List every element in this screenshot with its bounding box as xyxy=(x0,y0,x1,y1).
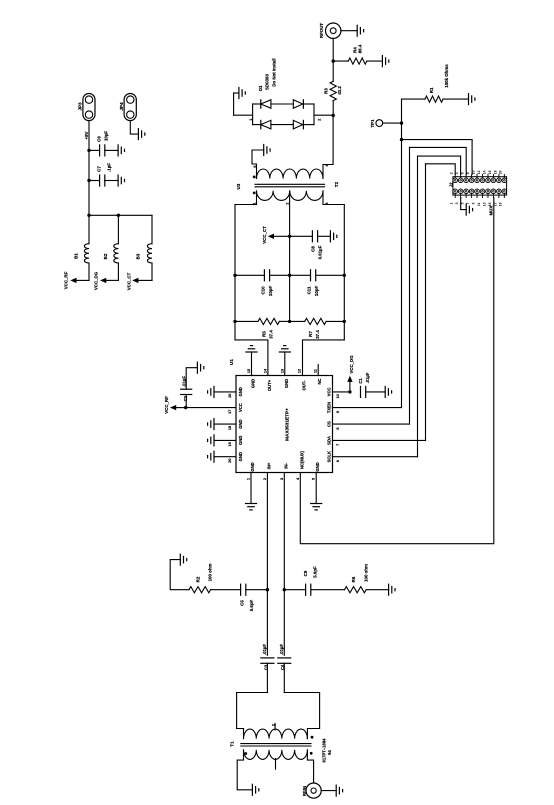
svg-text:VCC_RF: VCC_RF xyxy=(64,271,69,289)
svg-text:2: 2 xyxy=(263,478,267,480)
resistor R5 xyxy=(233,318,291,338)
diode D1a xyxy=(253,100,294,109)
svg-text:RFOUT: RFOUT xyxy=(319,23,324,38)
svg-text:6: 6 xyxy=(336,460,340,462)
svg-text:18: 18 xyxy=(493,170,497,174)
svg-text:6: 6 xyxy=(461,172,465,174)
svg-text:1: 1 xyxy=(450,202,454,204)
svg-text:R3: R3 xyxy=(324,88,329,94)
wire C4 to T1 xyxy=(284,693,319,739)
ground (R1) xyxy=(469,94,475,105)
resistor R7 xyxy=(290,318,346,338)
svg-text:17: 17 xyxy=(228,410,232,414)
svg-text:C9: C9 xyxy=(303,570,308,576)
svg-text:8: 8 xyxy=(466,172,470,174)
pin 19 GND xyxy=(214,436,243,447)
svg-text:C4: C4 xyxy=(280,664,285,670)
svg-text:20: 20 xyxy=(228,458,232,462)
svg-text:C6: C6 xyxy=(97,136,102,142)
wire TXEN riser xyxy=(400,99,403,408)
svg-text:NC(MUX): NC(MUX) xyxy=(299,450,304,469)
transformer T2 secondary xyxy=(252,116,333,179)
svg-text:B3: B3 xyxy=(136,253,141,259)
wire JP4 to ground xyxy=(130,121,138,135)
capacitor C8 xyxy=(290,231,331,260)
svg-text:VCC: VCC xyxy=(327,387,332,396)
svg-text:GND: GND xyxy=(315,462,320,471)
connector JP3 xyxy=(78,94,96,121)
pin 1 GND xyxy=(247,462,256,503)
capacitor C3 xyxy=(261,644,274,693)
inductor B2 xyxy=(103,215,118,280)
svg-text:VCC_RF: VCC_RF xyxy=(164,396,169,414)
svg-text:R7: R7 xyxy=(308,331,313,337)
svg-text:C8: C8 xyxy=(311,246,316,252)
svg-text:8: 8 xyxy=(336,427,340,429)
svg-text:IN+: IN+ xyxy=(266,462,271,469)
svg-text:10pF: 10pF xyxy=(314,286,319,297)
svg-text:JP3: JP3 xyxy=(78,102,83,111)
svg-text:100 ohm: 100 ohm xyxy=(364,564,369,582)
svg-text:16: 16 xyxy=(488,170,492,174)
svg-text:U1: U1 xyxy=(229,359,234,365)
svg-text:C3: C3 xyxy=(263,664,268,670)
svg-text:GND: GND xyxy=(284,379,289,388)
svg-text:19: 19 xyxy=(228,442,232,446)
inductor B1 xyxy=(74,215,90,280)
transformer T1 secondary xyxy=(244,724,314,739)
svg-text:VCC_DG: VCC_DG xyxy=(349,355,354,374)
wire OUT- feed xyxy=(303,340,345,376)
diode D1d xyxy=(293,120,314,129)
capacitor C7 xyxy=(89,163,118,186)
svg-text:.01µF: .01µF xyxy=(279,644,284,655)
svg-text:4: 4 xyxy=(455,172,459,174)
svg-text:10pF: 10pF xyxy=(268,286,273,297)
svg-text:100k Ohms: 100k Ohms xyxy=(444,64,449,88)
pin 3 IN- xyxy=(280,463,289,656)
inductor B3 xyxy=(136,215,153,280)
ground (C1) xyxy=(385,386,391,397)
resistor R3 xyxy=(324,61,343,115)
ground (pin16) xyxy=(208,386,214,397)
svg-text:10µF: 10µF xyxy=(104,131,109,141)
svg-text:VCC: VCC xyxy=(238,403,243,412)
svg-text:JP4: JP4 xyxy=(119,102,124,111)
node R4 junction xyxy=(332,59,335,62)
pin 14 OUT+ xyxy=(264,368,273,391)
svg-text:1: 1 xyxy=(247,478,251,480)
svg-text:SD0393: SD0393 xyxy=(265,74,270,90)
net MUX xyxy=(489,206,494,216)
test point TP1 xyxy=(370,119,383,128)
ground (R2) xyxy=(180,554,186,565)
svg-text:9: 9 xyxy=(336,411,340,413)
svg-text:10: 10 xyxy=(336,394,340,398)
svg-text:20: 20 xyxy=(499,170,503,174)
svg-text:VCC_CT: VCC_CT xyxy=(127,272,132,290)
svg-text:5.6pF: 5.6pF xyxy=(249,599,254,611)
svg-text:.01µF: .01µF xyxy=(182,376,187,387)
wire T2 right rail xyxy=(343,205,345,340)
pin 10 VCC xyxy=(327,387,352,398)
pin 8 CS xyxy=(327,421,410,430)
svg-text:12: 12 xyxy=(298,369,302,373)
svg-text:R2: R2 xyxy=(196,576,201,582)
svg-text:B2: B2 xyxy=(103,253,108,259)
ground (pin13) xyxy=(279,346,290,352)
pin 11 NC xyxy=(314,365,323,385)
wire RFOUT to ground xyxy=(341,30,357,32)
transformer T1 primary xyxy=(237,750,313,790)
svg-text:13: 13 xyxy=(482,202,486,206)
resistor R4 xyxy=(333,44,382,64)
svg-text:C10: C10 xyxy=(261,286,266,295)
capacitor C10 xyxy=(233,270,291,296)
svg-text:12: 12 xyxy=(477,170,481,174)
ground (pin20) xyxy=(208,451,214,462)
pin 17 VCC xyxy=(184,403,243,414)
pin 2 IN+ xyxy=(263,462,272,655)
svg-text:R5: R5 xyxy=(262,331,267,337)
net VCC_DG (pin10) xyxy=(347,355,354,392)
svg-text:GND: GND xyxy=(238,436,243,445)
capacitor C4 xyxy=(278,644,291,693)
svg-text:100 ohm: 100 ohm xyxy=(208,564,213,582)
wire OUT+ feed xyxy=(235,340,268,376)
svg-text:T2: T2 xyxy=(334,181,339,187)
svg-text:GND: GND xyxy=(238,452,243,461)
svg-text:0.01µF: 0.01µF xyxy=(318,245,323,259)
ground (pin5) xyxy=(311,504,322,510)
ground (R6) xyxy=(389,584,395,595)
svg-text:10: 10 xyxy=(471,170,475,174)
svg-text:5.6pF: 5.6pF xyxy=(313,566,318,578)
net VCC_RF (pin17) xyxy=(164,396,186,414)
svg-text:U3: U3 xyxy=(236,183,241,189)
svg-text:.1µF: .1µF xyxy=(107,163,112,172)
svg-text:MUX: MUX xyxy=(489,206,494,216)
ground (J2) xyxy=(466,204,472,215)
resistor R6 xyxy=(345,564,389,593)
svg-text:RFIN: RFIN xyxy=(302,786,307,796)
diode D1b xyxy=(293,100,314,109)
wire J2 ground xyxy=(461,198,467,210)
svg-text:.01µF: .01µF xyxy=(262,644,267,655)
svg-text:NC: NC xyxy=(317,378,322,384)
svg-text:C5: C5 xyxy=(240,600,245,606)
pin 20 GND xyxy=(214,452,243,463)
capacitor C5 xyxy=(240,584,268,611)
node IN- junction xyxy=(283,588,286,591)
svg-text:15: 15 xyxy=(247,369,251,373)
ground (JP4) xyxy=(138,129,144,140)
svg-text:C7: C7 xyxy=(97,166,102,172)
capacitor C2 xyxy=(181,368,198,408)
transformer T1 core xyxy=(241,744,311,746)
svg-text:R6: R6 xyxy=(351,576,356,582)
transformer T2 core xyxy=(255,184,325,187)
label T2 xyxy=(236,181,339,189)
net VCC_RF (B1) xyxy=(64,271,77,289)
pin 13 GND xyxy=(280,352,289,388)
ground (C6) xyxy=(118,145,124,156)
svg-text:2: 2 xyxy=(450,172,454,174)
svg-text:C1: C1 xyxy=(358,378,363,384)
ground (RFOUT) xyxy=(357,25,363,36)
svg-text:GND: GND xyxy=(238,419,243,428)
svg-text:3: 3 xyxy=(455,202,459,204)
svg-text:9: 9 xyxy=(471,202,475,204)
wire supply bus xyxy=(87,214,152,217)
svg-text:T1: T1 xyxy=(230,741,235,747)
ground (T1) xyxy=(252,784,258,795)
svg-text:TXEN: TXEN xyxy=(327,402,332,413)
svg-text:.01µF: .01µF xyxy=(365,372,370,383)
capacitor C6 xyxy=(89,131,118,156)
label D1 xyxy=(258,58,277,91)
svg-text:SCLK: SCLK xyxy=(327,451,332,462)
net VCC_CT (T2) xyxy=(262,226,290,244)
capacitor C1 xyxy=(358,372,385,397)
ground (pin18) xyxy=(208,419,214,430)
pin 6 SCLK xyxy=(327,451,418,462)
svg-text:86.4: 86.4 xyxy=(358,44,363,53)
svg-text:CS: CS xyxy=(327,421,332,427)
svg-text:16: 16 xyxy=(228,394,232,398)
svg-text:SDA: SDA xyxy=(327,436,332,445)
node VCC_CT junction xyxy=(288,235,291,238)
svg-text:J2: J2 xyxy=(448,182,453,187)
svg-text:D1: D1 xyxy=(258,85,263,91)
wire TXEN to header xyxy=(402,140,473,175)
svg-text:Do Not Install: Do Not Install xyxy=(272,58,277,86)
wire C3 to T1 xyxy=(237,693,268,739)
svg-text:B1: B1 xyxy=(74,253,79,259)
pin 4 NC(MUX) xyxy=(296,198,494,544)
resistor R1 xyxy=(402,64,469,102)
svg-text:3: 3 xyxy=(325,202,329,204)
svg-text:1: 1 xyxy=(253,202,257,204)
svg-text:37.4: 37.4 xyxy=(269,330,274,339)
wire centre rail xyxy=(289,236,291,321)
svg-text:MAX3531ETP+: MAX3531ETP+ xyxy=(285,408,290,441)
ground (R4) xyxy=(382,56,388,67)
ground (C7) xyxy=(118,175,124,186)
svg-text:TP1: TP1 xyxy=(370,119,375,128)
pin 5 GND xyxy=(312,462,321,503)
label T1 xyxy=(230,738,333,763)
svg-text:GND: GND xyxy=(238,387,243,396)
ground (pin1) xyxy=(246,504,257,510)
svg-text:3: 3 xyxy=(280,478,284,480)
svg-text:2: 2 xyxy=(318,119,322,121)
connector J2 header xyxy=(448,170,506,206)
net VCC_CT (B3) xyxy=(127,272,139,290)
svg-text:11: 11 xyxy=(314,369,318,373)
svg-text:2: 2 xyxy=(272,724,276,726)
transformer T2 primary xyxy=(235,191,344,236)
svg-text:C2: C2 xyxy=(183,395,188,401)
ground (pin19) xyxy=(208,435,214,446)
op-amp U1 body xyxy=(229,359,333,473)
ground (C2) xyxy=(197,362,203,373)
pin 15 GND xyxy=(247,352,256,388)
pin 7 SDA xyxy=(327,436,426,446)
svg-text:17: 17 xyxy=(493,202,497,206)
wire +8V feed xyxy=(88,121,90,216)
resistor R2 xyxy=(170,560,240,593)
ground (D1) xyxy=(239,88,245,99)
svg-text:18: 18 xyxy=(228,426,232,430)
connector RFIN xyxy=(302,783,321,798)
svg-text:43.2: 43.2 xyxy=(337,86,342,95)
pin 12 OUT- xyxy=(298,369,307,391)
diode D1 frame xyxy=(234,93,334,125)
svg-text:OUT-: OUT- xyxy=(302,380,307,391)
svg-text:GND: GND xyxy=(251,379,256,388)
svg-text:C11: C11 xyxy=(307,286,312,294)
svg-text:19: 19 xyxy=(499,202,503,206)
svg-text:13: 13 xyxy=(280,369,284,373)
net VCC_DG (B2) xyxy=(94,271,107,290)
svg-text:1: 1 xyxy=(249,119,253,121)
capacitor C11 xyxy=(290,270,346,296)
svg-text:IN-: IN- xyxy=(283,463,288,469)
svg-text:617PT–1684: 617PT–1684 xyxy=(322,738,327,763)
svg-text:37.4: 37.4 xyxy=(315,330,320,339)
svg-text:VCC_DG: VCC_DG xyxy=(94,271,99,290)
svg-text:GND: GND xyxy=(250,462,255,471)
svg-text:OUT+: OUT+ xyxy=(267,379,272,391)
svg-text:6: 6 xyxy=(253,165,257,167)
svg-text:14: 14 xyxy=(482,170,486,174)
connector RFOUT xyxy=(319,23,341,39)
svg-text:94: 94 xyxy=(327,750,332,755)
diode D1c xyxy=(253,120,294,129)
wire RFIN to ground xyxy=(321,790,336,792)
wire RFOUT down xyxy=(332,38,334,61)
node IN+ junction xyxy=(266,588,269,591)
ground (T2 pin6) xyxy=(264,145,270,156)
pin 18 GND xyxy=(214,419,243,430)
svg-text:5: 5 xyxy=(312,478,316,480)
node D1 junction xyxy=(332,114,335,117)
label +8V xyxy=(84,131,89,139)
pin 9 TXEN xyxy=(327,402,402,413)
ground (pin15) xyxy=(246,346,257,352)
wire T2 left rail xyxy=(234,205,236,340)
node C6 junction xyxy=(87,149,90,152)
capacitor C9 xyxy=(284,566,344,595)
svg-text:2: 2 xyxy=(286,202,290,204)
connector JP4 xyxy=(119,94,136,121)
node C7 junction xyxy=(87,179,90,182)
svg-text:VCC_CT: VCC_CT xyxy=(262,226,267,244)
svg-text:+8V: +8V xyxy=(84,131,89,139)
wire CS to header xyxy=(410,147,467,424)
ground (RFIN) xyxy=(336,785,342,796)
svg-text:11: 11 xyxy=(477,202,481,206)
wire SCLK to header xyxy=(418,156,461,457)
svg-text:7: 7 xyxy=(336,444,340,446)
svg-text:R1: R1 xyxy=(429,87,434,93)
wire SDA to header xyxy=(426,164,456,441)
pin 16 GND xyxy=(214,387,243,398)
wire TP1 xyxy=(383,121,403,124)
ground (C8) xyxy=(330,231,336,242)
